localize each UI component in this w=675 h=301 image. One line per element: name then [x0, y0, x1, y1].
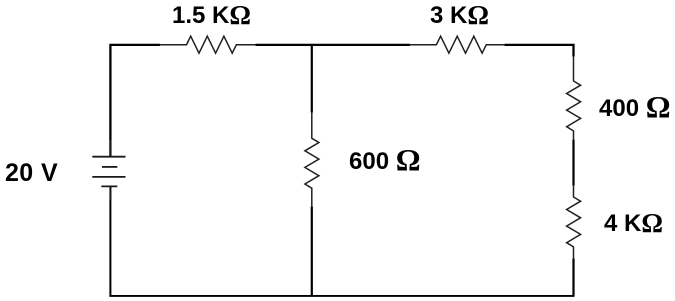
- label 400 Ohm: [599, 90, 671, 121]
- resistor R5 4K (right vertical lower): [567, 185, 581, 259]
- wire top: between 1.5K resistor and 3K resistor: [256, 44, 411, 46]
- resistor R4 400 ohm (right vertical upper): [567, 56, 581, 140]
- label 1.5 KOhm: [172, 1, 251, 28]
- label 4 KOhm: [604, 209, 663, 236]
- wire middle vertical lower: [311, 207, 313, 297]
- resistor R1 1.5K (top left horizontal): [160, 36, 257, 53]
- wire right vertical between 400ohm and 4K resistors: [572, 140, 574, 186]
- wire top: left corner to 1.5K resistor: [110, 45, 160, 157]
- resistor R3 600 ohm (middle vertical): [305, 112, 319, 207]
- wire middle vertical upper: [311, 45, 313, 113]
- resistor R2 3K (top right horizontal): [410, 36, 506, 53]
- label 600 Ohm: [349, 143, 421, 174]
- wire right vertical below 4K resistor: [572, 259, 574, 297]
- wire left vertical below battery: [109, 186, 111, 296]
- label 3 KOhm: [430, 1, 489, 28]
- wire bottom: [109, 295, 574, 297]
- wire top right: 3K resistor to right corner: [505, 45, 574, 57]
- battery B1 (20 V source): [92, 140, 125, 200]
- label 20 V: [5, 161, 58, 186]
